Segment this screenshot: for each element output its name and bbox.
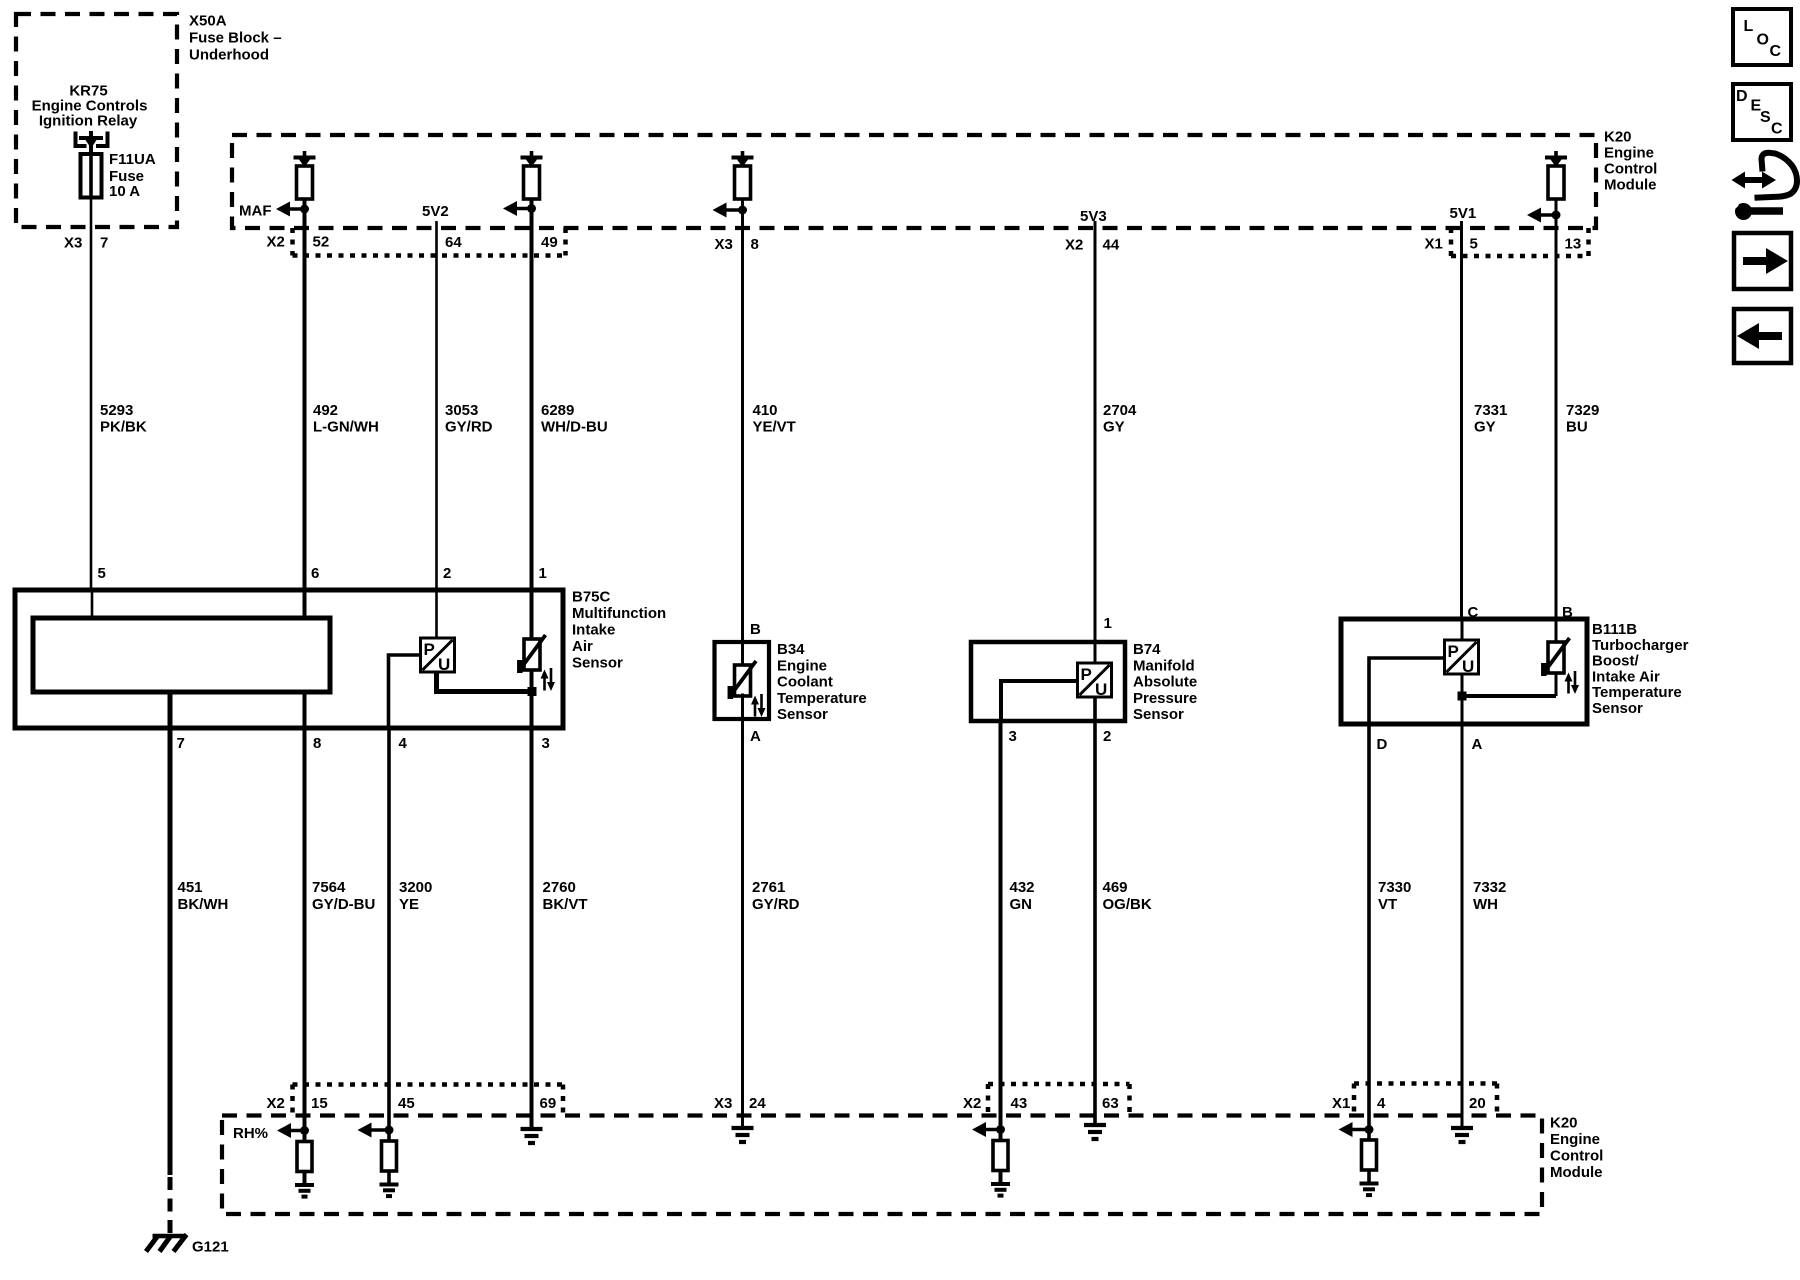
svg-text:Pressure: Pressure [1133,690,1197,707]
svg-text:Engine: Engine [1550,1131,1600,1148]
svg-text:7330: 7330 [1378,879,1411,896]
svg-text:7: 7 [177,735,185,752]
svg-text:13: 13 [1565,236,1582,253]
svg-text:3: 3 [542,735,550,752]
svg-text:X3: X3 [714,1095,732,1112]
svg-text:4: 4 [1377,1095,1386,1112]
svg-text:2704: 2704 [1103,402,1137,419]
svg-text:X1: X1 [1332,1095,1350,1112]
svg-text:64: 64 [445,234,462,251]
svg-text:GY/RD: GY/RD [752,896,800,913]
svg-text:Control: Control [1550,1148,1603,1165]
svg-text:5V3: 5V3 [1080,208,1107,225]
svg-text:C: C [1770,43,1782,60]
svg-text:G121: G121 [192,1239,229,1256]
svg-text:O: O [1757,32,1769,49]
svg-text:43: 43 [1011,1095,1028,1112]
svg-text:3: 3 [1009,728,1017,745]
svg-text:U: U [1095,680,1107,699]
svg-text:7332: 7332 [1473,879,1506,896]
svg-text:X3: X3 [715,236,733,253]
svg-text:P: P [1081,665,1092,684]
svg-text:X2: X2 [267,1095,285,1112]
svg-text:451: 451 [178,879,203,896]
svg-text:15: 15 [311,1095,328,1112]
svg-text:D: D [1377,736,1388,753]
svg-text:C: C [1468,604,1479,621]
svg-text:B74: B74 [1133,641,1161,658]
svg-text:Engine: Engine [777,657,827,674]
svg-text:Module: Module [1604,177,1657,194]
svg-text:Temperature: Temperature [1592,684,1682,701]
svg-text:2761: 2761 [752,879,785,896]
svg-text:7564: 7564 [312,879,346,896]
svg-text:5V2: 5V2 [422,203,449,220]
svg-text:Intake: Intake [572,622,615,639]
svg-text:YE: YE [399,896,419,913]
svg-text:C: C [1771,121,1783,138]
svg-text:P: P [1448,642,1459,661]
svg-text:MAF: MAF [239,203,272,220]
svg-text:K20: K20 [1604,129,1632,146]
svg-text:469: 469 [1103,879,1128,896]
svg-text:U: U [1462,657,1474,676]
svg-text:5: 5 [98,565,106,582]
svg-text:6: 6 [311,565,319,582]
svg-text:B75C: B75C [572,589,611,606]
svg-text:OG/BK: OG/BK [1103,896,1152,913]
svg-text:K20: K20 [1550,1115,1578,1132]
svg-text:U: U [438,655,450,674]
svg-text:X2: X2 [1065,237,1083,254]
svg-text:2: 2 [1103,728,1111,745]
svg-text:Ignition Relay: Ignition Relay [39,113,138,130]
svg-text:F11UA: F11UA [109,151,156,168]
svg-text:Fuse Block –: Fuse Block – [189,30,282,47]
svg-text:GY/D-BU: GY/D-BU [312,896,375,913]
svg-text:69: 69 [540,1095,557,1112]
svg-text:20: 20 [1469,1095,1486,1112]
svg-text:Sensor: Sensor [777,706,828,723]
svg-text:A: A [750,728,761,745]
svg-text:Sensor: Sensor [1592,700,1643,717]
svg-text:8: 8 [313,735,321,752]
svg-text:BK/VT: BK/VT [543,896,588,913]
svg-text:S: S [1760,109,1771,126]
svg-text:L: L [1744,18,1754,35]
svg-text:Turbocharger: Turbocharger [1592,637,1689,654]
svg-text:52: 52 [313,234,330,251]
svg-text:5: 5 [1470,236,1478,253]
svg-text:GY/RD: GY/RD [445,419,493,436]
svg-text:3053: 3053 [445,402,478,419]
svg-text:Air: Air [572,638,593,655]
svg-text:Temperature: Temperature [777,690,867,707]
svg-text:5293: 5293 [100,402,133,419]
svg-text:Absolute: Absolute [1133,674,1197,691]
svg-text:2760: 2760 [543,879,576,896]
svg-text:432: 432 [1010,879,1035,896]
svg-text:X50A: X50A [189,13,227,30]
svg-text:5V1: 5V1 [1450,205,1477,222]
svg-text:49: 49 [541,234,558,251]
svg-text:B: B [1562,604,1573,621]
svg-text:VT: VT [1378,896,1397,913]
svg-text:L-GN/WH: L-GN/WH [313,419,379,436]
svg-text:BU: BU [1566,419,1588,436]
svg-text:B34: B34 [777,641,805,658]
svg-text:7331: 7331 [1474,402,1507,419]
svg-text:492: 492 [313,402,338,419]
svg-text:Module: Module [1550,1164,1603,1181]
svg-text:X2: X2 [963,1095,981,1112]
svg-text:X1: X1 [1425,236,1443,253]
svg-text:Boost/: Boost/ [1592,653,1639,670]
svg-text:YE/VT: YE/VT [753,419,796,436]
svg-text:Coolant: Coolant [777,674,833,691]
svg-text:WH/D-BU: WH/D-BU [541,419,608,436]
svg-text:7: 7 [100,235,108,252]
svg-text:WH: WH [1473,896,1498,913]
svg-text:Underhood: Underhood [189,47,269,64]
svg-text:X2: X2 [267,234,285,251]
svg-text:BK/WH: BK/WH [178,896,229,913]
svg-text:63: 63 [1102,1095,1119,1112]
svg-text:1: 1 [539,565,547,582]
svg-text:3200: 3200 [399,879,432,896]
svg-text:Engine: Engine [1604,145,1654,162]
svg-text:P: P [424,640,435,659]
svg-text:1: 1 [1104,615,1112,632]
svg-text:45: 45 [398,1095,415,1112]
svg-text:Control: Control [1604,161,1657,178]
svg-text:Sensor: Sensor [572,655,623,672]
svg-text:Sensor: Sensor [1133,706,1184,723]
svg-text:D: D [1736,88,1748,105]
svg-text:44: 44 [1103,237,1120,254]
svg-text:RH%: RH% [233,1125,268,1142]
svg-text:Multifunction: Multifunction [572,605,666,622]
svg-text:PK/BK: PK/BK [100,419,147,436]
svg-text:10 A: 10 A [109,183,140,200]
svg-text:B: B [750,621,761,638]
svg-text:Intake Air: Intake Air [1592,668,1660,685]
svg-text:2: 2 [443,565,451,582]
svg-text:Manifold: Manifold [1133,657,1195,674]
svg-text:GY: GY [1103,419,1125,436]
svg-text:B111B: B111B [1592,621,1637,638]
svg-text:410: 410 [753,402,778,419]
svg-text:GN: GN [1010,896,1033,913]
svg-text:X3: X3 [64,235,82,252]
svg-text:4: 4 [399,735,408,752]
svg-text:6289: 6289 [541,402,574,419]
svg-text:GY: GY [1474,419,1496,436]
svg-text:24: 24 [749,1095,766,1112]
svg-text:7329: 7329 [1566,402,1599,419]
svg-text:8: 8 [751,236,759,253]
svg-text:A: A [1472,736,1483,753]
